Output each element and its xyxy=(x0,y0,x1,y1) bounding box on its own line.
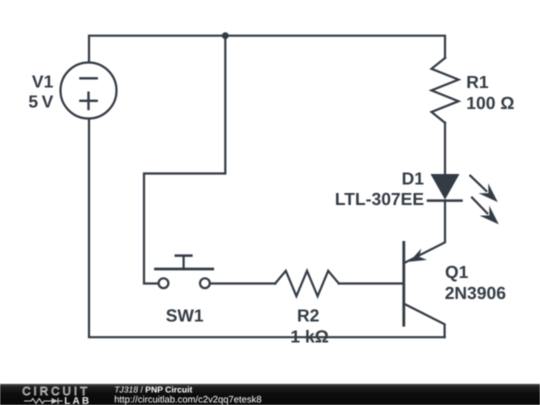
svg-text:5 V: 5 V xyxy=(28,91,53,111)
svg-text:2N3906: 2N3906 xyxy=(445,283,507,303)
svg-text:1 kΩ: 1 kΩ xyxy=(290,327,328,347)
svg-text:TJ318 / PNP Circuit: TJ318 / PNP Circuit xyxy=(114,385,192,395)
svg-text:LAB: LAB xyxy=(64,396,91,405)
svg-text:LTL-307EE: LTL-307EE xyxy=(335,189,424,209)
svg-text:V1: V1 xyxy=(32,72,54,92)
svg-text:Q1: Q1 xyxy=(445,262,469,282)
svg-text:SW1: SW1 xyxy=(166,305,204,325)
svg-text:http://circuitlab.com/c2v2qq7e: http://circuitlab.com/c2v2qq7etesk8 xyxy=(114,394,261,405)
svg-text:100 Ω: 100 Ω xyxy=(466,93,514,113)
svg-text:D1: D1 xyxy=(402,168,425,188)
svg-text:R1: R1 xyxy=(466,72,489,92)
svg-text:R2: R2 xyxy=(297,305,320,325)
